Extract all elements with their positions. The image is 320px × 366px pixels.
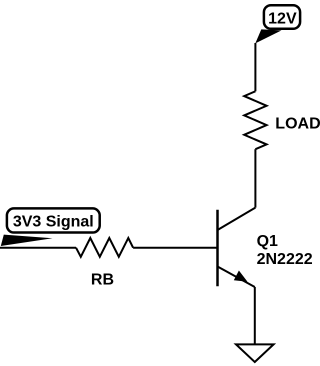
wire RB to base (133, 247, 216, 249)
resistor RB (76, 238, 133, 257)
wire 12V to LOAD (254, 43, 256, 91)
wire LOAD to collector (254, 149, 256, 207)
resistor LOAD (244, 91, 266, 149)
wire signal to RB (0, 247, 76, 249)
transistor Q1 collector lead (218, 208, 256, 230)
svg-text:RB: RB (91, 271, 114, 288)
transistor Q1 base bar (216, 210, 219, 286)
svg-text:12V: 12V (268, 10, 297, 27)
wire emitter to ground (254, 287, 256, 344)
svg-text:LOAD: LOAD (275, 116, 320, 133)
net flag 3V3 Signal tail (1, 235, 53, 246)
ground (236, 344, 274, 362)
svg-text:2N2222: 2N2222 (257, 251, 313, 268)
transistor Q1 emitter lead (218, 267, 255, 288)
svg-text:3V3 Signal: 3V3 Signal (13, 214, 94, 231)
svg-text:Q1: Q1 (257, 233, 278, 250)
net flag 3V3 Signal box (7, 208, 100, 232)
net flag 12V tail (255, 29, 281, 43)
transistor Q1 emitter arrow (234, 271, 248, 282)
net flag 12V box (264, 5, 300, 29)
